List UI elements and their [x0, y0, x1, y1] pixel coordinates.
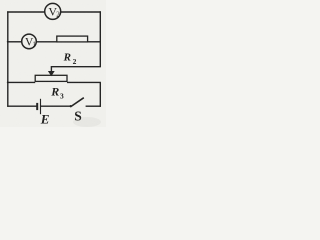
- battery E long plate: [40, 99, 42, 114]
- wire row3 right: [67, 81, 101, 83]
- switch pivot nub: [70, 105, 72, 107]
- junction node row3 left: [7, 81, 9, 83]
- wire bottom left: [7, 105, 36, 107]
- wire left vertical: [7, 11, 9, 107]
- wire right vertical lower: [99, 82, 101, 106]
- rheostat R3: [35, 75, 67, 81]
- resistor R2: [57, 36, 88, 42]
- wire right vertical upper: [99, 11, 101, 67]
- wire bottom right: [86, 105, 101, 107]
- wire slider tap: [51, 67, 101, 72]
- wire row2 left: [8, 41, 22, 43]
- wire bottom middle: [41, 105, 70, 107]
- switch S lever: [70, 98, 84, 107]
- wire row2 right: [88, 41, 101, 43]
- wire top right segment: [61, 11, 101, 13]
- rheostat slider arrowhead: [48, 71, 55, 76]
- scan smudge: [73, 117, 101, 127]
- junction node row2 left: [7, 41, 9, 43]
- scan noise texture: [0, 0, 106, 127]
- wire row2 middle: [36, 41, 56, 43]
- paper background: [0, 0, 106, 127]
- voltmeter V1: [22, 34, 37, 49]
- wire row3 left: [8, 81, 35, 83]
- voltmeter V2: [45, 3, 61, 19]
- wire top left segment: [7, 11, 44, 13]
- battery E short plate: [36, 103, 38, 110]
